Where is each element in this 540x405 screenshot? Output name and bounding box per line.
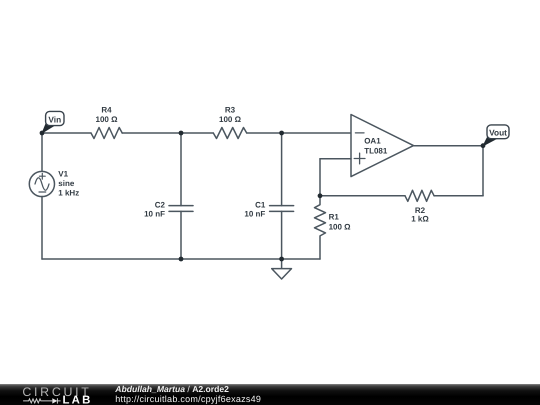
svg-text:V1: V1: [58, 169, 68, 178]
footer title text: [114, 384, 261, 404]
svg-text:100 Ω: 100 Ω: [329, 223, 352, 232]
svg-text:10 nF: 10 nF: [244, 210, 265, 219]
wire Vout leg to R2: [434, 195, 483, 197]
svg-text:1 kΩ: 1 kΩ: [411, 215, 429, 224]
svg-text:R4: R4: [101, 106, 112, 115]
svg-text:C2: C2: [155, 200, 166, 209]
node C1 top junction: [279, 131, 284, 136]
node feedback junction: [318, 193, 323, 198]
wire R3 to op-amp minus input: [247, 132, 351, 134]
op-amp OA1: [351, 115, 414, 177]
node C2 bottom junction: [179, 257, 184, 262]
label OA1 value: [364, 136, 388, 155]
svg-text:1 kHz: 1 kHz: [58, 189, 79, 198]
svg-text:Abdullah_Martua / A2.orde2: Abdullah_Martua / A2.orde2: [114, 384, 229, 394]
resistor R3: [213, 128, 246, 139]
resistor R4: [91, 128, 122, 139]
capacitor C1: [270, 133, 294, 259]
capacitor C2: [169, 133, 193, 259]
wire R2 to feedback node: [320, 195, 405, 197]
ground: [272, 259, 292, 279]
voltage source V1: [29, 171, 54, 196]
svg-text:Vout: Vout: [489, 128, 507, 138]
footer bar: [0, 384, 540, 405]
svg-text:LAB: LAB: [63, 395, 93, 405]
node Vout junction dot: [481, 143, 486, 148]
wire V1 bottom down: [41, 196, 43, 259]
node Vin junction dot: [40, 131, 45, 136]
label C1 value: [244, 200, 265, 218]
svg-text:http://circuitlab.com/cpyjf6ex: http://circuitlab.com/cpyjf6exazs49: [115, 394, 261, 404]
svg-text:Vin: Vin: [48, 114, 61, 124]
wire plus input down to feedback node: [319, 159, 321, 196]
resistor R2: [405, 190, 434, 201]
label V1 value: [58, 169, 79, 197]
label R1 value: [329, 213, 352, 232]
label C2 value: [144, 200, 165, 218]
svg-text:TL081: TL081: [364, 146, 388, 155]
wire Vin node down to V1 top: [41, 133, 43, 172]
wire Vout node down: [482, 146, 484, 196]
svg-text:R3: R3: [225, 106, 236, 115]
label R2 value: [411, 206, 429, 224]
wire bottom rail: [42, 258, 282, 260]
label R4 value: [96, 106, 119, 125]
node Vin flag: [42, 111, 64, 132]
svg-text:R1: R1: [329, 213, 340, 222]
wire op-amp output to Vout node: [414, 145, 484, 147]
node Vout flag: [483, 125, 509, 146]
wire op-amp plus input: [320, 158, 351, 160]
label R3 value: [219, 106, 242, 125]
node C2 top junction: [179, 131, 184, 136]
node ground junction: [279, 257, 284, 262]
svg-text:sine: sine: [58, 179, 75, 188]
svg-text:100 Ω: 100 Ω: [219, 115, 242, 124]
CircuitLab logo: [22, 385, 92, 405]
svg-text:OA1: OA1: [364, 136, 381, 145]
svg-text:10 nF: 10 nF: [144, 210, 165, 219]
svg-text:100 Ω: 100 Ω: [96, 115, 119, 124]
wire bottom rail ground to R1: [282, 258, 320, 260]
resistor R1: [315, 196, 326, 259]
svg-text:C1: C1: [255, 200, 266, 209]
wire R4 to R3: [122, 132, 213, 134]
wire top rail Vin to R4: [42, 132, 91, 134]
